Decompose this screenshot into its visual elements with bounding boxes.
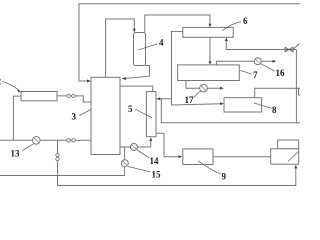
- svg-text:13: 13: [11, 149, 21, 159]
- svg-text:6: 6: [243, 16, 248, 26]
- svg-text:17: 17: [185, 95, 195, 105]
- svg-text:8: 8: [272, 105, 277, 115]
- svg-text:9: 9: [222, 172, 227, 182]
- svg-text:14: 14: [150, 156, 160, 166]
- svg-text:3: 3: [72, 112, 77, 122]
- svg-text:15: 15: [152, 170, 162, 180]
- svg-text:5: 5: [128, 104, 133, 114]
- svg-text:7: 7: [253, 70, 258, 80]
- svg-text:2: 2: [0, 77, 2, 87]
- svg-text:16: 16: [276, 68, 286, 78]
- svg-text:4: 4: [159, 38, 164, 48]
